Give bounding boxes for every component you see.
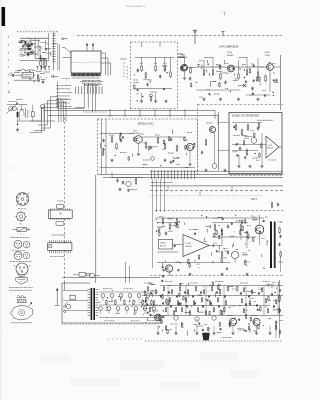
- wire rails vert section: [157, 222, 180, 224]
- dotted bottom border: [145, 340, 147, 342]
- wire verticals CRT: [203, 60, 205, 69]
- wire drops video module: [141, 58, 143, 65]
- capacitor C203: [159, 74, 161, 76]
- capacitor C302: [225, 80, 227, 82]
- coil L103 bump wire: [18, 69, 36, 71]
- wire left of audio box vertical: [217, 112, 219, 170]
- resistor R302: [212, 69, 214, 71]
- power value labels: [103, 288, 104, 290]
- IC module M201 top pin 2: [92, 44, 94, 52]
- dark electrolytic bar 2: [274, 222, 276, 269]
- ground symbols audio box: [238, 165, 240, 167]
- power circle part: [66, 304, 70, 308]
- svg-text:MODEL 19T-3X09/PQRST: MODEL 19T-3X09/PQRST: [232, 115, 260, 117]
- transistor T803: [253, 318, 260, 325]
- wire right edge drop: [273, 66, 280, 68]
- resistor R212: [145, 142, 147, 144]
- right edge vertical wires bottom: [279, 280, 281, 338]
- DIP package IO201 bottom pin ticks: [50, 218, 52, 220]
- dark electrolytic bar 1: [270, 222, 272, 269]
- resistor R215: [176, 145, 178, 147]
- extra wire stubs top-left lower: [34, 81, 35, 82]
- resistor R1 tuner dark: [17, 112, 19, 117]
- transformer TR1 core bars: [91, 288, 93, 320]
- transistor Q1 tuner: [21, 105, 23, 109]
- DIP package IO202 body: [48, 243, 72, 251]
- fuse symbol horizontal: [12, 229, 17, 231]
- svg-text:21Ω: 21Ω: [199, 97, 203, 99]
- wire bottom rail signal module: [100, 167, 195, 169]
- IC module M201 body: [71, 51, 101, 73]
- resistor R214: [164, 143, 166, 145]
- small circles bottom right: [174, 316, 178, 320]
- transistor T202: [135, 136, 143, 144]
- capacitor C301: [189, 76, 191, 78]
- resistor R310: [235, 124, 237, 126]
- power transistor bottom view: [16, 263, 28, 275]
- resistor R101: [27, 42, 29, 43]
- power rows of rectifier parts: [101, 294, 105, 298]
- wire row to right bundle: [75, 106, 84, 108]
- long vertical wire A: [83, 83, 85, 109]
- label tuner: [8, 100, 11, 102]
- tuner right stubs: [56, 98, 68, 100]
- wire verticals bottom right: [167, 286, 169, 316]
- capacitor C501: [158, 228, 160, 230]
- capacitor C304 right edge: [276, 78, 278, 80]
- ground row bottom right: [157, 332, 159, 334]
- small circle below module: [126, 181, 131, 186]
- opamp IC501 triangle large: [183, 235, 209, 257]
- capacitor C210: [103, 138, 105, 140]
- wire bottom rail: [14, 79, 40, 81]
- pin ladder right side of IF block: [53, 33, 55, 71]
- dark blobs in IF cluster: [25, 42, 27, 44]
- capacitor C219 below module: [122, 180, 124, 182]
- transistor T101 cluster: [18, 40, 23, 41]
- fuse plug cluster above box: [90, 273, 95, 278]
- label under IO202: [49, 256, 52, 258]
- DIP package IO201 bottom tab: [56, 221, 64, 225]
- long vertical wire C: [92, 83, 94, 112]
- DIP package IO201 top pin ticks: [50, 208, 52, 210]
- resistor R503: [176, 218, 178, 220]
- pin label text block below IC: [62, 78, 63, 80]
- long vertical wire D: [94, 85, 96, 111]
- ground symbols signal module: [111, 159, 113, 161]
- dashed enclosure around audio section: [197, 104, 199, 176]
- IF block texture rows: [20, 40, 21, 42]
- dashed separator line main: [77, 35, 283, 37]
- resistor R311: [241, 129, 243, 131]
- transistor bottom view pair 1b: [23, 241, 30, 248]
- extra parts lower transistor row: [242, 328, 245, 331]
- capacitor C206: [147, 82, 149, 84]
- wire into box: [218, 122, 229, 124]
- dotted border top of IF block: [17, 31, 19, 33]
- note text two rows: [9, 287, 10, 289]
- resistor R306: [257, 71, 259, 73]
- extra clutter below opamp: [212, 261, 214, 264]
- top margin tick: [224, 12, 226, 16]
- capacitor C105 with HF label: [10, 74, 13, 76]
- bus drop into power box: [125, 262, 127, 283]
- wire T201 collector up: [184, 58, 186, 65]
- dashed line below audio box: [230, 175, 283, 177]
- wire top stubs CRT: [204, 57, 213, 59]
- wire vertical net V2: [39, 46, 41, 59]
- subtitle text in audio box: [257, 119, 258, 121]
- junction dot tuner: [17, 124, 19, 126]
- wire stub LBL label: [20, 53, 21, 55]
- wire right edge vertical pair: [57, 44, 59, 71]
- black registration bar top-left: [2, 7, 6, 26]
- text row thyristor note: [9, 236, 12, 238]
- trimmer gear symbol: [17, 212, 26, 221]
- capacitor C303: [252, 86, 254, 88]
- tuner wire rail: [7, 104, 27, 106]
- transistor bottom view pair 1a: [14, 240, 22, 248]
- resistor R304: [238, 73, 240, 75]
- extra parts top-left block: [27, 44, 28, 46]
- svg-text:Ex: Ex: [20, 224, 22, 226]
- wire horizontal bottom of IF: [35, 58, 40, 60]
- supply line vertical links: [167, 186, 169, 191]
- svg-text:AC0.P: AC0.P: [160, 245, 166, 248]
- power box bottom hatch: [62, 323, 63, 325]
- scan speckles: [101, 230, 102, 231]
- svg-text:BF469: BF469: [227, 55, 234, 57]
- extra candles vert upper left: [177, 223, 179, 226]
- wire below module: [112, 177, 143, 179]
- wire stubs on box top: [141, 42, 143, 47]
- power wires horizontal: [99, 291, 158, 293]
- value labels bottom right: [144, 282, 145, 284]
- tube V101 oscillator can: [39, 57, 48, 59]
- resistor R312: [247, 124, 249, 126]
- small circle test point: [149, 94, 152, 97]
- value labels CRT: [199, 60, 200, 62]
- opamp IC301 triangle: [266, 136, 279, 158]
- capacitor C103 top bar: [44, 48, 47, 50]
- svg-text:A4500: A4500: [186, 245, 193, 248]
- dotted bottom border left part: [108, 338, 109, 340]
- dashed distribution line right: [83, 111, 108, 113]
- bus junction ticks: [109, 109, 111, 117]
- misc solder dots bottom left: [7, 91, 10, 93]
- wire bend into bus: [58, 108, 85, 110]
- dashed wire left branch: [21, 48, 23, 55]
- IC module left lead diagonal: [65, 48, 72, 54]
- supply line dotted light: [150, 194, 262, 196]
- bus bend at right upper: [214, 111, 216, 120]
- DIP package IO201 top tab: [57, 204, 64, 208]
- power resistors row: [106, 300, 108, 301]
- wire T201 emitter down + ground: [184, 71, 186, 76]
- IC module right pin wires: [101, 52, 106, 54]
- IF block texture dots: [22, 42, 23, 43]
- small hatched box: [17, 300, 26, 303]
- bus wire 2: [103, 177, 283, 179]
- small parts near L502: [227, 250, 229, 252]
- resistor R218 below module: [135, 178, 137, 180]
- pin stubs top of AFC row: [37, 66, 39, 70]
- right edge parts column vert: [280, 251, 282, 253]
- CRT envelope outline sketch: [11, 305, 33, 320]
- power small rect: [70, 295, 75, 300]
- label under socket: [18, 208, 19, 210]
- vertical stub left of label rows: [57, 82, 59, 109]
- diode D301: [243, 84, 246, 87]
- resistor column R501: [162, 218, 164, 220]
- resistor R213: [157, 137, 159, 139]
- value labels vert section: [156, 226, 159, 228]
- capacitor C2 tuner: [25, 108, 27, 118]
- value labels signal module: [109, 134, 110, 136]
- capacitor C504: [246, 230, 248, 232]
- vert section long rails: [155, 217, 264, 219]
- transformer TR1 winding ticks right: [96, 289, 99, 291]
- wire CRT rail: [196, 66, 267, 68]
- connector pin ticks on bus: [151, 170, 153, 179]
- supply line 190V: [150, 185, 283, 187]
- connector pin letters: [151, 181, 152, 183]
- svg-text:BF346: BF346: [181, 57, 188, 59]
- wire dashes right of IC: [123, 62, 125, 78]
- svg-text:MODUL AOC: MODUL AOC: [138, 121, 154, 125]
- IF block extra dots: [28, 38, 29, 39]
- ground symbols video module: [141, 100, 143, 102]
- long dashed vertical wire: [64, 118, 66, 283]
- extra candles vert upper mid: [244, 232, 245, 234]
- IF transformer tuner box: [31, 112, 34, 117]
- faint dots bottom area: [98, 352, 99, 353]
- capacitor field bottom right: [150, 291, 152, 294]
- extra parts power module: [146, 304, 149, 306]
- svg-text:LA502: LA502: [160, 241, 167, 244]
- transformer TR1 winding ticks left: [88, 289, 91, 291]
- AFC module box: [22, 72, 33, 78]
- shield pentagon symbol: [16, 278, 28, 285]
- resistor R305: [246, 69, 248, 71]
- capacitor C106 vertical: [36, 74, 38, 79]
- label frame section box: [159, 239, 173, 249]
- DIP package IO202 bottom pin ticks: [48, 250, 50, 253]
- power wires inside: [63, 290, 88, 292]
- wire vertical net V3: [48, 33, 50, 61]
- resistor R502: [169, 223, 171, 225]
- svg-text:NSVB: NSVB: [252, 220, 258, 222]
- svg-text:TV30: TV30: [265, 55, 271, 57]
- IC module pin comb wires down: [75, 87, 77, 93]
- resistor R202: [145, 72, 147, 74]
- resistor R301: [203, 69, 205, 71]
- transistor bottom view pair 2b: [23, 252, 29, 258]
- IC module label rows: [81, 80, 84, 82]
- svg-text:IO 201: IO 201: [57, 200, 64, 202]
- IC module M201 top pin 1: [86, 44, 88, 52]
- horiz deflection rail 1: [160, 285, 283, 287]
- extra parts vert section: [165, 261, 166, 262]
- label MS/SECAM in video module: [133, 79, 136, 81]
- DIP package IO201 body: [48, 210, 72, 218]
- label under CRT sketch: [11, 322, 12, 324]
- tuner junction wire: [30, 120, 42, 122]
- dashed enclosure top edge audio section: [198, 103, 284, 105]
- power box top wire: [62, 277, 160, 279]
- wire T202 emitter: [138, 143, 140, 152]
- resistor R313: [246, 149, 248, 151]
- transistor T802: [229, 318, 236, 325]
- dashed section divider: [155, 209, 283, 211]
- transistor T303: [228, 65, 235, 72]
- wire to CRT section: [188, 67, 196, 69]
- ground tuner: [17, 128, 19, 130]
- capacitor C310: [257, 126, 259, 128]
- svg-text:CVP ZOBRAZENI: CVP ZOBRAZENI: [219, 46, 239, 49]
- transistor bottom view pair 2a: [14, 252, 22, 260]
- resistor right edge bottom: [279, 295, 281, 297]
- flyback dark component: [203, 333, 210, 340]
- misc wires vert section: [152, 212, 154, 268]
- capacitor C503: [227, 224, 229, 226]
- DIP package IO202 top pin ticks: [48, 240, 50, 242]
- svg-text:A4510: A4510: [267, 147, 274, 150]
- bus wire 3 short: [150, 170, 283, 172]
- capacitor C320: [201, 150, 203, 152]
- dashed box signal module: [97, 119, 99, 174]
- tuner bottom rail: [18, 120, 56, 122]
- resistor R203: [155, 65, 157, 67]
- supply line dashed mid: [150, 190, 283, 192]
- wire rail 2 signal module: [142, 136, 186, 138]
- ground symbols vert section: [162, 275, 164, 277]
- arrow into IF block top: [61, 38, 68, 40]
- ground below module: [119, 188, 121, 190]
- bus line pair upper: [44, 110, 215, 112]
- IC module left lead 2: [63, 57, 72, 59]
- horiz deflection rail 3: [142, 305, 270, 307]
- IC module bottom pin hatch row: [71, 73, 73, 76]
- resistor R303: [220, 73, 222, 75]
- IC module scan noise line: [72, 62, 100, 63]
- coil L2 tuner: [41, 105, 45, 109]
- resistor R307 right: [265, 75, 267, 77]
- label IO202 rows: [52, 234, 53, 236]
- capacitor C311: [239, 146, 241, 148]
- scan edge shading left margin: [0, 0, 2, 400]
- resistor R320: [205, 139, 207, 141]
- extra parts bottom right field: [168, 299, 170, 302]
- capacitor C213: [150, 145, 152, 147]
- value labels audio box: [232, 135, 235, 137]
- resistor R506: [240, 224, 242, 226]
- capacitor C101 dark plates: [28, 44, 31, 46]
- svg-text:190 V: 190 V: [251, 199, 257, 201]
- mains lead antenna left: [56, 289, 58, 306]
- small circle audio in: [251, 138, 257, 144]
- svg-text:BC238: BC238: [133, 133, 140, 135]
- text row transistor pinout note: [10, 261, 11, 263]
- extra parts signal module: [192, 145, 194, 148]
- capacitor C201: [137, 68, 139, 70]
- value labels video module: [139, 62, 142, 64]
- IC module pin number row: [71, 77, 74, 79]
- long vertical wire from module to power box: [95, 175, 97, 283]
- horiz deflection rail 2: [142, 295, 283, 297]
- small circle test point 2: [151, 157, 155, 161]
- resistor R210: [111, 136, 113, 138]
- wire rail signal module: [100, 133, 134, 135]
- lower cluster extra marks: [14, 70, 17, 72]
- capacitor C214: [170, 137, 172, 139]
- tuner right vertical bundle: [58, 98, 60, 122]
- dark pin label text row right of IC block: [79, 81, 82, 83]
- transistor T203: [187, 144, 194, 151]
- dashed box video module border: [130, 42, 132, 109]
- svg-text:IC501: IC501: [186, 243, 193, 245]
- bus wire 1: [98, 174, 284, 176]
- label T801: [151, 310, 154, 312]
- extra parts CRT between T302 T303: [190, 82, 192, 85]
- dotted border left of IF block: [7, 36, 9, 38]
- capacitor C218 below module: [117, 178, 119, 180]
- staircase wires rows to tuner: [51, 96, 58, 98]
- transistor T801: [155, 314, 162, 321]
- diode D101 marks: [31, 51, 34, 54]
- transistor T501 small circle: [165, 265, 172, 272]
- right edge small parts mid: [271, 202, 273, 204]
- resistor R204: [164, 65, 166, 67]
- IF block inner wires: [23, 44, 33, 46]
- ground sym under C106: [42, 80, 44, 82]
- power box outline: [61, 283, 63, 323]
- wire lower rail CRT: [196, 89, 240, 91]
- wire opamp out: [209, 245, 222, 247]
- tuner coil L1 with arrow: [9, 106, 13, 110]
- label T301: [205, 122, 208, 124]
- long vertical wires in signal module: [101, 119, 103, 174]
- coil L502 circle: [231, 251, 238, 258]
- antenna tick symbol on dashed line: [194, 30, 196, 44]
- resistor field bottom right: [147, 285, 149, 288]
- coil sketch small: [17, 295, 25, 297]
- right edge parts vert section: [279, 227, 281, 229]
- wire vertical net V1: [34, 38, 36, 58]
- junction dots bottom right: [159, 295, 160, 296]
- wire opamp output: [279, 146, 282, 148]
- wire mid rail video module: [135, 88, 172, 90]
- coil circle left of box: [212, 164, 217, 169]
- faint scan mottling bottom area: [40, 355, 70, 363]
- capacitor C212: [120, 138, 122, 140]
- tick symbol 2 on dashed line: [222, 31, 224, 36]
- transistor T201: [181, 64, 187, 70]
- signal arrow into IF: [51, 75, 58, 77]
- resistor R211: [116, 143, 118, 145]
- label T803: [250, 314, 253, 316]
- wire top rail IF block: [20, 37, 49, 39]
- resistor R206 beside T201: [190, 67, 192, 69]
- wire rails audio box: [232, 122, 262, 124]
- resistor R201: [141, 65, 143, 67]
- long vertical wire B: [87, 83, 89, 109]
- horiz deflection rail 4: [150, 315, 283, 317]
- mains switch: [64, 305, 66, 307]
- label T802: [226, 314, 229, 316]
- dashed line bottom of vert section: [150, 274, 283, 276]
- transistor T301 left of box: [210, 127, 216, 133]
